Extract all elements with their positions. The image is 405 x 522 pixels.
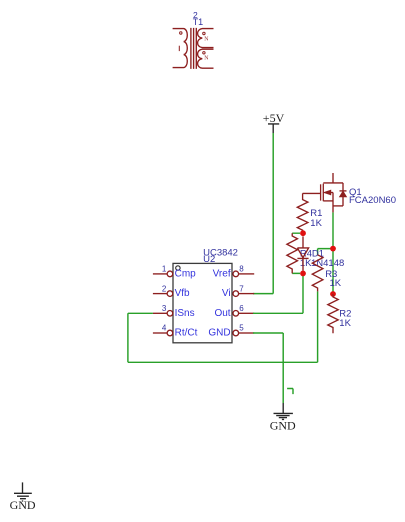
svg-text:Vfb: Vfb bbox=[175, 288, 190, 299]
svg-text:1K: 1K bbox=[330, 278, 342, 289]
svg-text:Out: Out bbox=[214, 308, 230, 319]
svg-text:Cmp: Cmp bbox=[175, 269, 197, 280]
svg-text:1N4148: 1N4148 bbox=[311, 258, 344, 269]
svg-text:+5V: +5V bbox=[263, 111, 285, 125]
svg-text:Rt/Ct: Rt/Ct bbox=[175, 328, 198, 339]
svg-text:GND: GND bbox=[10, 498, 36, 512]
svg-text:7: 7 bbox=[239, 284, 244, 293]
svg-text:4: 4 bbox=[162, 324, 167, 333]
svg-text:5: 5 bbox=[239, 324, 244, 333]
svg-text:GND: GND bbox=[208, 328, 230, 339]
svg-text:1K: 1K bbox=[339, 318, 351, 329]
svg-text:ISns: ISns bbox=[175, 308, 195, 319]
svg-text:T1: T1 bbox=[193, 17, 204, 27]
svg-text:1: 1 bbox=[162, 265, 167, 274]
svg-text:Vref: Vref bbox=[213, 269, 231, 280]
svg-text:3: 3 bbox=[162, 304, 167, 313]
svg-text:FCA20N60: FCA20N60 bbox=[349, 195, 396, 206]
svg-text:8: 8 bbox=[239, 265, 244, 274]
svg-text:6: 6 bbox=[239, 304, 244, 313]
svg-text:GND: GND bbox=[270, 419, 296, 433]
svg-text:2: 2 bbox=[162, 284, 167, 293]
svg-text:1K: 1K bbox=[310, 218, 322, 229]
svg-text:Vi: Vi bbox=[222, 288, 231, 299]
